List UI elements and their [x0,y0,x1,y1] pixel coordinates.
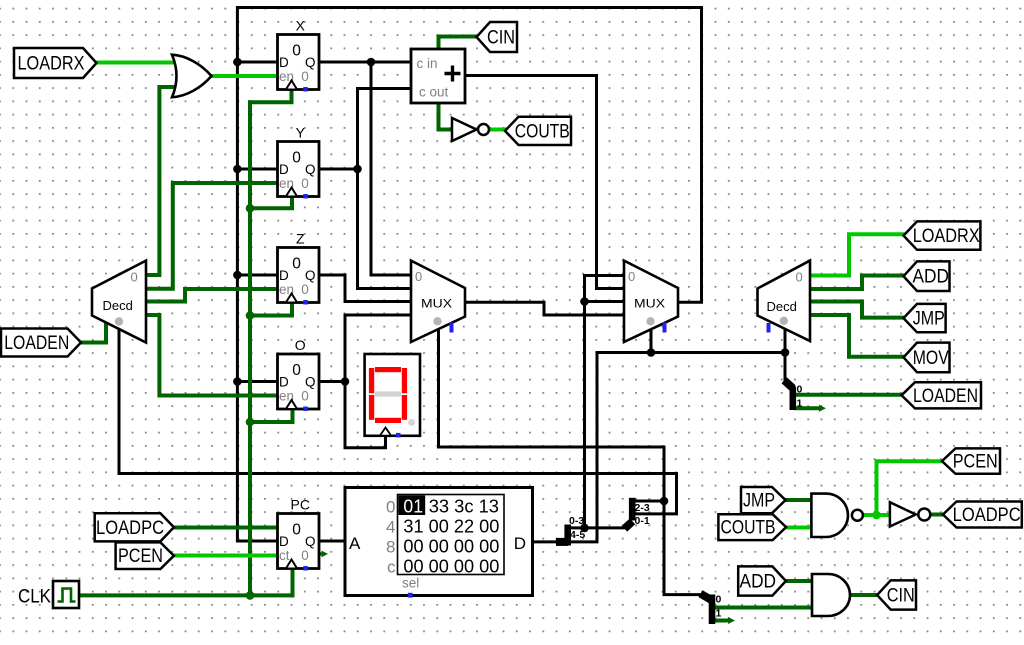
svg-text:A: A [349,534,361,553]
svg-text:0: 0 [292,362,301,379]
svg-text:0: 0 [131,270,138,285]
svg-text:LOADRX: LOADRX [18,54,85,75]
svg-text:D: D [279,55,289,70]
svg-text:PCEN: PCEN [118,546,163,567]
svg-text:0-1: 0-1 [635,515,650,527]
svg-text:0: 0 [292,256,301,273]
svg-text:Q: Q [305,268,316,283]
svg-text:1: 1 [716,608,722,620]
svg-text:0: 0 [415,269,422,284]
svg-text:MUX: MUX [421,299,452,311]
svg-text:COUTB: COUTB [515,121,570,142]
svg-text:ADD: ADD [740,572,777,593]
svg-text:31 00 22 00: 31 00 22 00 [403,515,499,536]
svg-text:CIN: CIN [487,28,515,49]
svg-text:D: D [279,534,289,549]
svg-text:O: O [295,337,306,353]
svg-text:0: 0 [301,69,309,84]
svg-text:LOADPC: LOADPC [953,505,1021,526]
svg-text:00 00 00 00: 00 00 00 00 [403,535,499,556]
svg-text:Y: Y [296,125,306,141]
svg-text:COUTB: COUTB [721,518,776,539]
svg-text:0: 0 [797,384,803,396]
svg-text:Q: Q [305,162,316,177]
svg-text:Z: Z [296,231,305,247]
svg-text:ADD: ADD [913,267,950,288]
svg-text:4: 4 [386,517,395,536]
svg-text:1: 1 [797,397,803,409]
svg-text:c out: c out [419,85,449,100]
svg-text:2-3: 2-3 [635,502,650,514]
svg-text:JMP: JMP [913,309,945,330]
svg-text:Q: Q [305,534,316,549]
svg-text:LOADEN: LOADEN [913,386,978,407]
svg-text:Q: Q [305,375,316,390]
svg-text:X: X [296,18,306,34]
svg-text:MUX: MUX [634,299,665,311]
svg-text:0: 0 [628,269,635,284]
svg-text:Q: Q [305,55,316,70]
svg-text:0: 0 [796,270,803,285]
svg-text:0: 0 [301,282,309,297]
svg-text:0-3: 0-3 [569,515,584,527]
svg-text:0: 0 [716,594,722,606]
svg-text:D: D [514,534,526,553]
svg-text:D: D [279,162,289,177]
svg-text:LOADRX: LOADRX [913,226,980,247]
svg-text:0: 0 [292,43,301,60]
svg-text:CLK: CLK [18,587,51,608]
svg-text:0: 0 [301,548,309,563]
svg-text:PC: PC [291,497,310,513]
svg-text:LOADPC: LOADPC [96,518,164,539]
svg-text:D: D [279,268,289,283]
svg-text:c: c [387,557,396,576]
svg-text:0: 0 [292,522,301,539]
svg-text:00 00 00 00: 00 00 00 00 [403,555,499,576]
svg-text:sel: sel [402,576,419,591]
svg-text:0: 0 [386,497,395,516]
svg-text:0: 0 [301,389,309,404]
svg-text:4-5: 4-5 [570,529,585,541]
svg-text:33 3c 13: 33 3c 13 [429,495,499,516]
svg-text:MOV: MOV [913,348,949,369]
svg-text:ct: ct [279,548,290,563]
svg-text:CIN: CIN [887,586,915,607]
svg-text:D: D [279,375,289,390]
svg-text:Decd: Decd [767,299,797,314]
svg-text:PCEN: PCEN [953,452,998,473]
svg-text:LOADEN: LOADEN [4,333,69,354]
svg-text:0: 0 [292,150,301,167]
svg-text:01: 01 [403,495,423,516]
svg-text:c in: c in [417,56,438,71]
svg-text:0: 0 [301,176,309,191]
svg-text:JMP: JMP [743,491,775,512]
svg-text:8: 8 [386,537,395,556]
svg-text:Decd: Decd [103,298,133,313]
